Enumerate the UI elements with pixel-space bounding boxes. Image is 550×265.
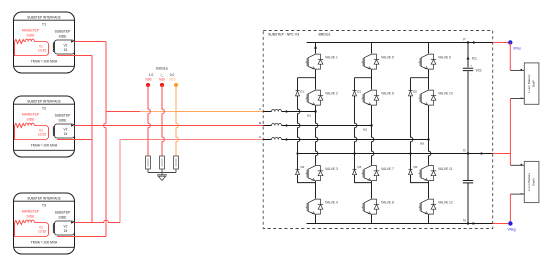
svg-text:VALVE 8: VALVE 8 [381,201,394,205]
VNeg node dot [508,221,512,225]
svg-text:VALVE 10: VALVE 10 [438,92,453,96]
svg-text:15: 15 [64,132,68,136]
phase A input line [263,111,315,113]
T2 mainstep winding V1 (resistor + inductor + box) [15,123,49,139]
capacitor VC1 plates [463,68,473,70]
wire phase B horizontal (T2 top to bridge, hopped at x106) [75,125,264,127]
battery BatP bottom lead [510,98,524,100]
DC rail N [307,223,493,225]
phase A current arrow [284,110,287,113]
IGBT valve VALVE 6 [362,89,380,106]
leg vertical x428.5 upper segments [428,43,430,90]
svg-text:10.35: 10.35 [38,133,46,137]
IGBT valve VALVE 7 [362,165,380,182]
IGBT valve VALVE 1 [306,53,324,70]
svg-text:N06: N06 [145,78,151,82]
T3 output arrow [71,221,74,223]
svg-text:N2: N2 [363,128,367,132]
bus node dot 3 [174,83,178,87]
svg-text:MAINSTEP: MAINSTEP [22,209,40,213]
clamp diode D5 [408,91,412,96]
phase A input inductor [272,109,282,111]
wire battery midpoint vertical (red) [509,99,511,166]
T3 substep winding V2 box [53,221,74,235]
svg-text:TMVA = 200 MVA: TMVA = 200 MVA [31,240,58,244]
IGBT valve VALVE 8 [362,198,380,215]
clamp branch vertical x297.5 with hops [298,78,316,183]
T1 bottom divider line [14,65,75,67]
wire phase A horizontal orange segment to bridge [176,111,263,113]
svg-text:B: B [259,121,261,125]
capacitor current arrow IC1 [467,56,470,60]
svg-text:D4: D4 [358,165,362,169]
wire phase C horizontal to bridge [120,139,263,141]
svg-text:V2: V2 [64,43,68,47]
phase node N2 dot [370,124,372,126]
junction dot O-capacitor [467,152,469,154]
DC link capacitor chain vertical [467,43,469,224]
svg-text:1.0: 1.0 [149,73,154,77]
Li-ion battery BatN box [524,161,539,202]
svg-text:SIDE: SIDE [59,118,68,122]
svg-text:15: 15 [64,48,68,52]
svg-text:N3: N3 [420,142,424,146]
wire P to VPos node (red) [493,42,511,44]
svg-text:Li-ion Battery: Li-ion Battery [527,172,531,191]
svg-text:D5: D5 [413,89,417,93]
ground symbol [157,173,167,181]
svg-text:IC1: IC1 [472,57,477,61]
O-rail junction dot at clamp x297.5 [296,152,298,154]
svg-text:-: - [471,73,472,77]
svg-text:SUBSTEP: SUBSTEP [55,210,72,214]
wire VPos down to battery P (red) [509,43,511,71]
leg vertical x371.5 middle segment with hops [372,106,374,165]
svg-text:T3: T3 [42,204,46,208]
O rail arrow [481,152,484,155]
phase B input inductor [272,123,282,125]
svg-text:VALVE 5: VALVE 5 [381,56,394,60]
svg-text:15: 15 [64,229,68,233]
transformer interface block T2 [14,96,75,157]
svg-text:VALVE 4: VALVE 4 [325,201,338,205]
svg-text:Li-ion Battery: Li-ion Battery [527,74,531,93]
DC rail O (neutral) [298,153,493,155]
N rail arrow [473,222,476,225]
svg-text:TMVA = 200 MVA: TMVA = 200 MVA [31,59,58,63]
T3 mainstep winding V1 (resistor + inductor + box) [15,220,49,236]
battery BatN top lead [510,164,524,166]
leg vertical x315.5 middle segment with hops [316,106,318,165]
wire vertical x120 (C line down to T3 top line) [119,140,121,223]
IGBT valve VALVE 4 [306,198,324,215]
clamp diode D1 [295,91,299,96]
transformer interface block T1 [14,12,75,73]
clamp branch vertical x410.5 with hops [411,78,429,183]
clamp branch vertical x354.5 with hops [355,78,372,183]
svg-text:BRDG1: BRDG1 [319,32,331,36]
svg-text:VALVE 7: VALVE 7 [381,167,394,171]
phase node N1 dot [314,110,316,112]
wire T1 bottom output [57,55,92,57]
DC rail P [307,42,493,44]
svg-text:SUBSTEP INTERFACE: SUBSTEP INTERFACE [27,196,61,200]
svg-text:SIDE: SIDE [27,33,36,37]
svg-text:N26: N26 [159,78,165,82]
svg-text:VALVE 1: VALVE 1 [325,56,338,60]
clamp diode D4 [352,169,356,174]
svg-text:BatN: BatN [532,179,536,186]
T2 substep winding V2 box [53,124,74,138]
wire T3 top output line with hop over x106 [75,220,121,222]
clamp branch top link leg x315.5 [298,77,316,79]
wire N rail to VNeg node (red) [493,223,511,225]
transformer interface block T3 [14,193,75,254]
phase C current arrow [284,138,287,141]
bus line 3 (connects phase A, hops B and C) [176,85,178,156]
clamp diode D3 [352,91,356,96]
wire T1 top output to vertical riser [75,41,107,43]
wire T2 bottom output [57,139,92,141]
svg-text:0.0: 0.0 [170,73,175,77]
svg-text:SUBSTEP INTERFACE: SUBSTEP INTERFACE [27,15,61,19]
svg-text:VALVE 12: VALVE 12 [438,201,453,205]
svg-text:SIDE: SIDE [59,34,68,38]
leg vertical x428.5 lower segments [428,181,430,224]
junction dot P-capacitor [467,41,469,43]
leg vertical x315.5 lower segments [315,181,317,224]
svg-text:VC1: VC1 [476,69,482,73]
svg-text:V2: V2 [64,127,68,131]
svg-text:/_: /_ [161,73,164,77]
T2 output arrow [71,124,74,126]
T3 bottom divider line [14,246,75,248]
svg-text:VPos: VPos [513,46,521,50]
IGBT valve VALVE 9 [419,53,437,70]
svg-text:SUBSTEP - NPC V3: SUBSTEP - NPC V3 [268,32,299,36]
shunt resistor R3 [174,156,179,173]
phase C input line [263,139,428,141]
svg-text:SUBSTEP: SUBSTEP [55,29,72,33]
battery BatP plus mark [521,69,523,71]
svg-text:D1: D1 [300,89,304,93]
svg-text:T1: T1 [42,23,46,27]
NPC bridge dashed enclosure [263,31,493,229]
phase C input inductor [272,137,282,139]
T1 mainstep winding V1 (resistor + inductor + box) [15,39,49,55]
leg vertical x428.5 middle segment with hops [429,106,431,165]
IGBT valve VALVE 10 [419,89,437,106]
phase B input line [263,125,371,127]
svg-text:A: A [259,107,261,111]
svg-text:VALVE 2: VALVE 2 [325,92,338,96]
svg-text:D6: D6 [414,165,418,169]
wire vertical riser x106 (T1 top to T3 bottom, hop at B line) [104,42,106,237]
battery BatN minus mark [521,192,523,195]
svg-text:10.35: 10.35 [38,230,46,234]
clamp branch top link leg x371.5 [355,77,372,79]
clamp branch top link leg x428.5 [411,77,429,79]
bus voltage readouts [149,73,175,77]
P rail arrow [473,41,476,44]
svg-text:N16: N16 [169,78,175,82]
svg-text:V2: V2 [64,224,68,228]
T2 bottom divider line [14,149,75,151]
T1 substep winding V2 box [53,40,74,54]
svg-text:D2: D2 [301,165,305,169]
IGBT valve VALVE 3 [306,165,324,182]
svg-text:VALVE 11: VALVE 11 [438,167,453,171]
battery BatN bottom lead [510,193,524,195]
T1 output arrow [71,40,74,42]
phase B current arrow [284,124,287,127]
svg-text:SIDE: SIDE [59,215,68,219]
lower DC capacitor plates [463,181,473,183]
svg-text:SUBSTEP INTERFACE: SUBSTEP INTERFACE [27,99,61,103]
ground bus bar [148,172,176,174]
svg-text:SIDE: SIDE [27,214,36,218]
svg-text:SUBSTEP: SUBSTEP [55,113,72,117]
svg-text:P: P [463,37,465,41]
phase node N3 dot [427,138,429,140]
IGBT valve VALVE 2 [306,89,324,106]
leg vertical x371.5 upper segments [371,43,373,90]
bus line 1 (connects phase C, hops A and B) [148,85,150,156]
bus node dot 2 [160,83,164,87]
bus phase tags [145,78,175,82]
svg-text:VALVE 6: VALVE 6 [381,92,394,96]
svg-text:BatP: BatP [532,80,536,87]
svg-text:10.35: 10.35 [38,49,46,53]
svg-text:VALVE 3: VALVE 3 [325,167,338,171]
bus node dot 1 [146,83,150,87]
svg-text:N1: N1 [307,114,311,118]
svg-text:BUS1a: BUS1a [156,66,167,70]
O-rail junction dot at clamp x410.5 [409,152,411,154]
wire O rail to midpoint (red) [493,153,511,155]
svg-text:D3: D3 [357,89,361,93]
svg-text:VNeg: VNeg [507,227,515,231]
svg-text:SIDE: SIDE [27,117,36,121]
clamp diode D6 [408,169,412,174]
IGBT valve VALVE 5 [362,53,380,70]
leg vertical x371.5 lower segments [371,181,373,224]
wire phase A horizontal fade segment [140,111,176,113]
battery BatN plus mark [521,164,523,166]
IGBT valve VALVE 11 [419,165,437,182]
svg-text:TMVA = 200 MVA: TMVA = 200 MVA [31,143,58,147]
svg-text:VALVE 9: VALVE 9 [438,56,451,60]
clamp diode D2 [295,169,299,174]
shunt resistor R1 [146,156,151,173]
leg vertical x315.5 upper segments [315,43,317,90]
svg-text:MAINSTEP: MAINSTEP [22,112,40,116]
leg 1 rail current arrow [314,45,317,48]
wire vertical riser x92 (T1 bottom to T3 top line) [91,56,93,223]
bus line 2 (connects phase B, hops A and C) [162,85,164,156]
battery BatP top lead [510,69,524,71]
wire phase A horizontal red segment [106,111,140,113]
O-rail junction dot at clamp x354.5 [353,152,355,154]
svg-text:T2: T2 [42,107,46,111]
junction dot N-capacitor [467,222,469,224]
svg-text:MAINSTEP: MAINSTEP [22,28,40,32]
shunt resistor R2 [160,156,165,173]
svg-text:+: + [470,64,472,68]
wire T3 bottom output [57,236,106,238]
IGBT valve VALVE 12 [419,198,437,215]
battery BatP minus mark [521,97,523,100]
Li-ion battery BatP box [524,63,539,104]
wire battery bottom to VNeg (red) [509,194,511,223]
VPos node dot [508,40,512,44]
